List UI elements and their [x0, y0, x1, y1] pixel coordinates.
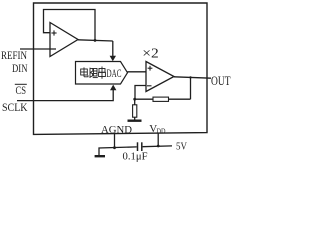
wire R1 to AGND bar [134, 117, 136, 119]
wire AGND pin down [114, 133, 116, 147]
svg-text:CS: CS [16, 83, 27, 97]
wire U1 output down to DAC [112, 41, 114, 56]
U1 feedback loop wire [44, 10, 96, 41]
junction dot feedback node [133, 98, 136, 101]
chip boundary [34, 3, 208, 134]
supply rail right segment [143, 145, 172, 148]
resistor R2 (feedback) [153, 97, 169, 101]
arrowhead into DAC bottom [110, 85, 116, 91]
junction dot output/feedback [189, 76, 191, 78]
ground symbol bar [95, 155, 105, 157]
svg-text:0.1μF: 0.1μF [123, 150, 148, 162]
svg-text:OUT: OUT [211, 74, 231, 88]
junction dot VDD rail [157, 145, 160, 148]
U1 output wire [78, 40, 113, 41]
op-amp U1 (reference buffer) [50, 23, 78, 57]
glyph 电 [81, 67, 88, 76]
AGND termination bar [128, 119, 142, 121]
U2 output wire to OUT pin [174, 77, 211, 78]
svg-text:AGND: AGND [101, 124, 132, 136]
ground rail left segment [99, 147, 137, 155]
arrowhead into DAC top [110, 56, 116, 62]
svg-text:×2: ×2 [142, 46, 159, 61]
junction dot feedback/output [94, 39, 97, 42]
svg-text:REFIN: REFIN [1, 48, 27, 62]
U2 - sign [147, 85, 152, 87]
wire SCLK [17, 90, 113, 101]
wire VDD pin down [157, 133, 159, 146]
U1 + sign [51, 30, 56, 35]
glyph 串 [99, 67, 106, 79]
resistor-string DAC block [76, 62, 128, 85]
capacitor C1 plate right [141, 142, 143, 151]
svg-text:DAC: DAC [107, 68, 122, 80]
wire U2 inverting input from feedback node [135, 86, 146, 100]
capacitor C1 plate left [137, 142, 139, 151]
CS overline [15, 83, 27, 85]
svg-text:DIN: DIN [12, 63, 28, 75]
op-amp U2 (output amplifier) [146, 62, 174, 92]
wire R2 to node [135, 98, 153, 100]
glyph 阻 [90, 68, 98, 78]
resistor R1 (to ground) [133, 105, 137, 117]
wire feedback down [190, 77, 192, 99]
wire node to resistor R1 [134, 99, 136, 105]
wire DAC output to op-amp U2 + input [128, 71, 147, 73]
U2 + sign [148, 66, 153, 71]
wire REFIN to op-amp U1 inverting input (with - dash inside) [20, 48, 56, 50]
wire feedback to resistor R2 [169, 98, 191, 100]
svg-text:5V: 5V [176, 140, 187, 152]
svg-text:SCLK: SCLK [2, 100, 28, 114]
junction dot AGND rail [113, 146, 116, 149]
